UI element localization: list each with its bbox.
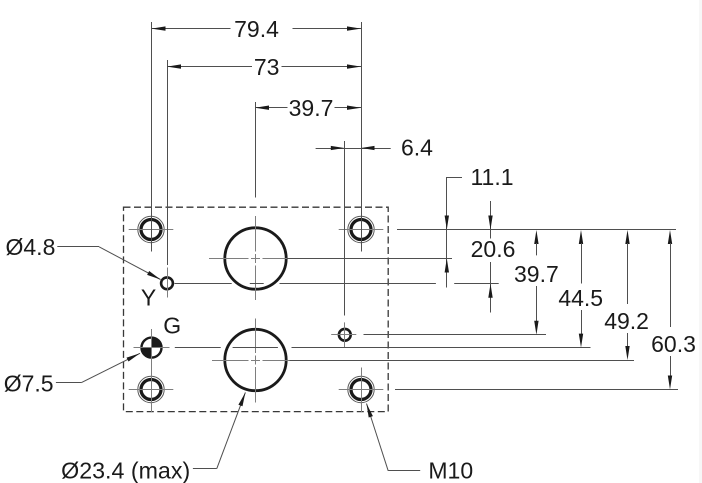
svg-text:G: G <box>163 313 181 339</box>
svg-text:44.5: 44.5 <box>558 285 603 311</box>
svg-text:Y: Y <box>141 285 156 311</box>
svg-text:20.6: 20.6 <box>471 236 516 262</box>
svg-text:49.2: 49.2 <box>604 308 649 334</box>
svg-text:M10: M10 <box>428 458 473 483</box>
svg-text:60.3: 60.3 <box>651 331 696 357</box>
svg-text:Ø23.4 (max): Ø23.4 (max) <box>61 458 190 483</box>
svg-text:39.7: 39.7 <box>514 261 559 287</box>
svg-text:Ø7.5: Ø7.5 <box>4 370 54 396</box>
svg-text:6.4: 6.4 <box>401 135 433 161</box>
svg-text:11.1: 11.1 <box>470 164 513 190</box>
svg-text:Ø4.8: Ø4.8 <box>6 234 56 260</box>
svg-text:79.4: 79.4 <box>234 16 279 42</box>
svg-text:39.7: 39.7 <box>289 95 334 121</box>
svg-text:73: 73 <box>254 54 280 80</box>
